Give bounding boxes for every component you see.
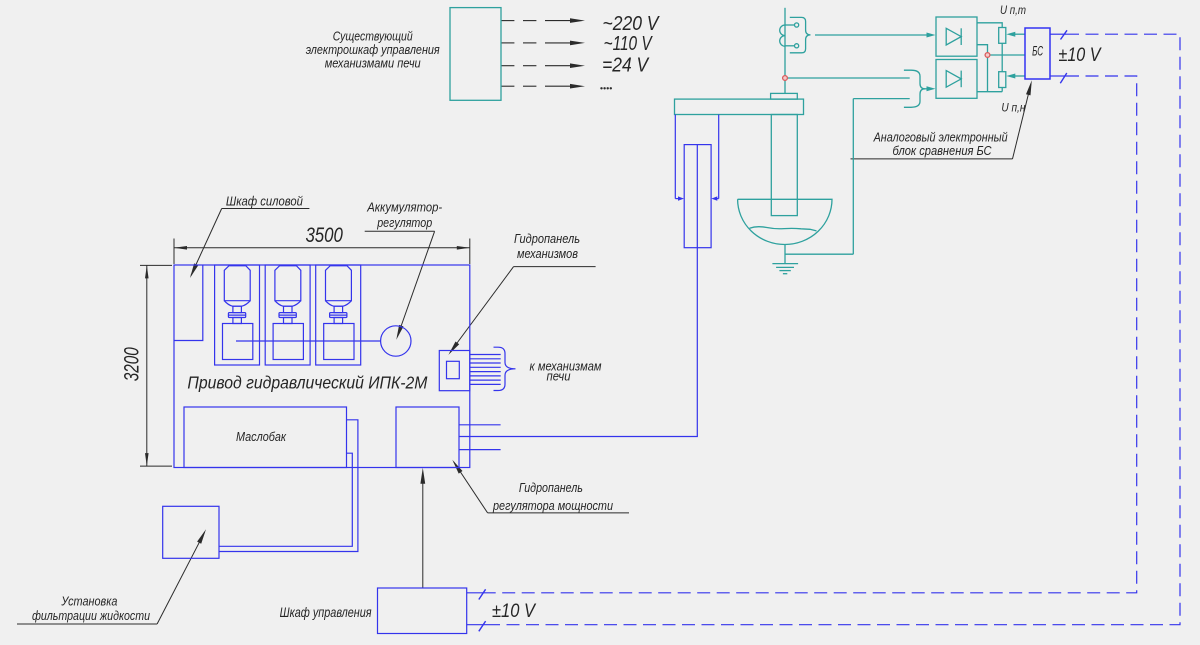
svg-text:электрошкаф управления: электрошкаф управления	[306, 43, 440, 57]
svg-text:фильтрации жидкости: фильтрации жидкости	[32, 608, 150, 623]
svg-text:Существующий: Существующий	[333, 29, 413, 43]
svg-text:3200: 3200	[120, 347, 144, 381]
svg-text:±10 V: ±10 V	[492, 600, 537, 622]
svg-text:регулятора мощности: регулятора мощности	[492, 498, 613, 513]
svg-text:Аналоговый электронный: Аналоговый электронный	[873, 130, 1008, 144]
svg-text:±10 V: ±10 V	[1059, 45, 1103, 66]
svg-text:U п,т: U п,т	[1000, 5, 1026, 17]
svg-text:печи: печи	[547, 368, 571, 383]
svg-text:~220 V: ~220 V	[603, 13, 660, 35]
svg-text:U п,н: U п,н	[1001, 102, 1026, 114]
svg-text:~110 V: ~110 V	[604, 33, 653, 55]
svg-text:блок сравнения БС: блок сравнения БС	[893, 144, 993, 158]
svg-text:регулятор: регулятор	[376, 215, 432, 230]
svg-text:Шкаф силовой: Шкаф силовой	[226, 193, 303, 208]
svg-text:механизмов: механизмов	[517, 246, 578, 261]
svg-text:3500: 3500	[305, 223, 343, 247]
svg-text:Шкаф управления: Шкаф управления	[280, 604, 372, 620]
svg-text:Гидропанель: Гидропанель	[519, 480, 583, 495]
svg-text:Аккумулятор-: Аккумулятор-	[366, 200, 442, 215]
svg-text:БС: БС	[1032, 44, 1043, 59]
svg-text:Гидропанель: Гидропанель	[514, 231, 580, 246]
svg-text:механизмами печи: механизмами печи	[325, 57, 421, 71]
svg-text:=24 V: =24 V	[602, 54, 649, 76]
svg-text:Привод гидравлический ИПК-2М: Привод гидравлический ИПК-2М	[187, 373, 427, 393]
svg-text:Установка: Установка	[61, 593, 118, 608]
svg-text:Маслобак: Маслобак	[236, 429, 287, 444]
